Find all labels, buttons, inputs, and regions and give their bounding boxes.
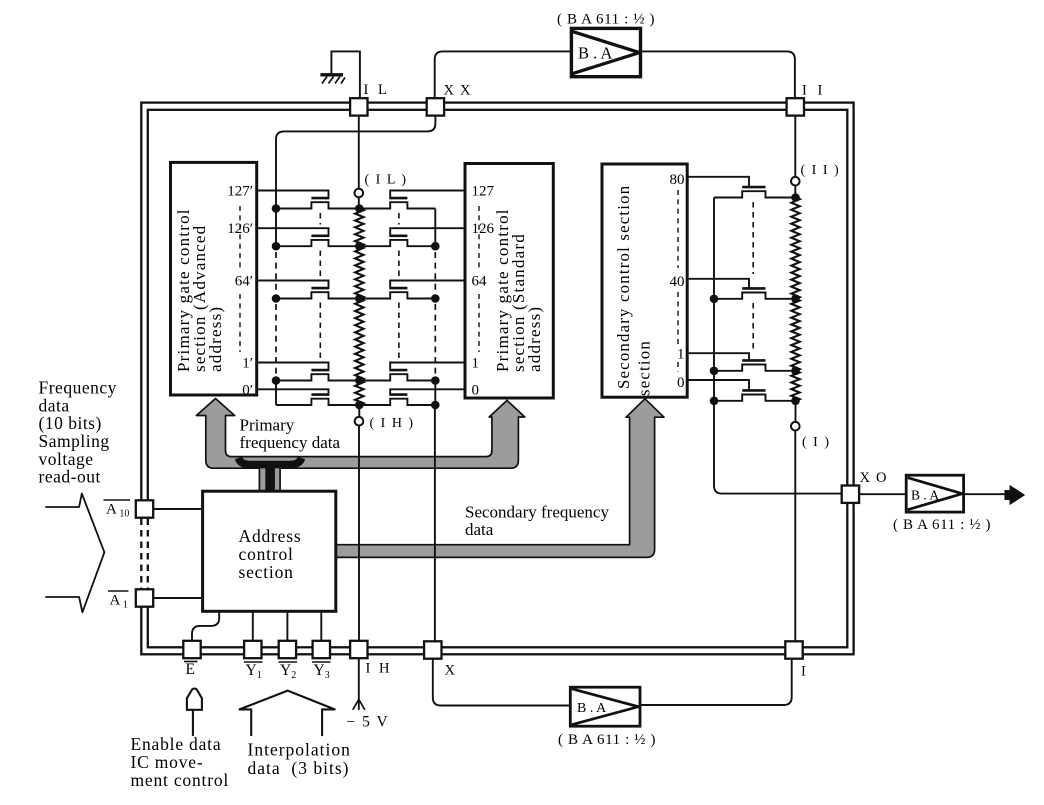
left border dashed segment between A10 and A1 pins [139,518,151,589]
svg-text:( B A 611 : ½ ): ( B A 611 : ½ ) [557,12,655,28]
ground [320,75,345,84]
node (II) [791,177,800,186]
box primary gate control (standard address) [465,164,553,399]
wire A10 pin to address box [153,508,203,510]
transistor Q0pS (standard, row 0p) [390,389,465,396]
input arrow interpolation data [240,691,335,736]
svg-text:( I ): ( I ) [802,435,831,450]
svg-text:frequency data: frequency data [240,433,341,452]
svg-text:126: 126 [472,221,495,237]
transistor Q127pS (standard, row 127p) [390,191,465,200]
wire secondary rail to XO pin [714,401,842,494]
svg-text:40: 40 [670,274,685,290]
transistor Q1pS (standard, row 1p) [390,363,465,372]
transistor Q126pA (advanced, row 126p) [257,228,329,237]
wire XO pin to buffer B.A right [859,493,906,495]
resistor ladder primary [355,209,363,247]
svg-text:IC move-: IC move- [131,752,204,772]
node (I) [791,422,800,431]
wire Y2 pin to address box [286,611,288,641]
svg-text:X O: X O [860,470,888,486]
svg-text:Secondary control section: Secondary control section [614,185,633,389]
pin II [787,98,804,115]
op-amp U2 B.A (right) [906,475,963,512]
svg-text:1′: 1′ [242,356,253,372]
svg-text:127′: 127′ [227,184,253,200]
IC package inner border [148,110,848,648]
dashed continuation standard box [478,206,480,271]
left source rail (XX net) [275,209,277,247]
box address control section [203,491,336,611]
svg-text:80: 80 [670,172,685,188]
svg-text:control: control [239,544,294,564]
op-amp U3 B.A (bottom) [570,687,640,726]
pin IH [350,641,367,658]
svg-text:Primary: Primary [240,416,295,435]
svg-text:0: 0 [472,383,480,399]
box primary gate control (advanced address) [171,162,257,395]
wire IH pin down to -5V chevron [358,658,360,710]
transistor Q1C (secondary, row 1) [687,353,749,361]
svg-text:127: 127 [472,184,495,200]
svg-text:B . A: B . A [911,488,939,503]
svg-text:I: I [801,664,806,680]
svg-text:( B A 611 : ½ ): ( B A 611 : ½ ) [893,517,991,533]
svg-text:X X: X X [444,83,472,99]
transistor Q64pA (advanced, row 64p) [257,281,329,290]
pin X [424,641,441,658]
-5V chevron arrowhead [353,699,365,709]
pin E [183,641,200,658]
box secondary control section [602,164,687,397]
transistor Q40C (secondary, row 40) [687,279,749,290]
svg-text:Address: Address [239,526,302,546]
svg-text:address): address) [525,306,544,372]
transistor Q0C (secondary, row 0) [687,380,749,392]
wire IL pin down to node (IL) [358,116,360,189]
wire X rail down to X pin [434,405,436,642]
svg-text:E: E [186,661,195,678]
junction dots secondary array [791,193,800,202]
wire ladder bottom to node IH and down to IH pin [358,405,360,417]
wire A1 pin to address box [153,597,203,599]
resistor ladder secondary [791,198,799,299]
node (IL) [355,189,364,198]
svg-text:Interpolation: Interpolation [248,740,351,760]
svg-text:( I L ): ( I L ) [365,173,408,188]
transistor Q1pA (advanced, row 1p) [257,363,329,372]
svg-text:− 5 V: − 5 V [347,714,390,731]
transistor Q126pS (standard, row 126p) [390,228,465,237]
pin Y3 [313,641,330,658]
svg-text:64: 64 [472,274,488,290]
wire ladder to node I and down to I pin [795,401,797,422]
junction dots primary array [355,204,364,213]
svg-text:B . A: B . A [578,44,612,63]
svg-text:Secondary frequency: Secondary frequency [465,503,609,522]
svg-text:I I: I I [802,83,826,99]
IC package outer border [141,103,853,655]
wire II pin down to node (II) [794,116,796,177]
svg-text:section: section [635,340,654,396]
svg-text:1: 1 [472,356,480,372]
output arrow (solid) [1005,486,1024,504]
svg-text:Enable data: Enable data [131,734,222,754]
svg-text:0′: 0′ [242,383,253,399]
pin Y2 [279,641,296,658]
svg-text:0: 0 [677,375,685,391]
svg-text:X: X [445,663,456,679]
pin Y1 [244,641,261,658]
wire X pin down to buffer B.A bottom [433,659,571,706]
wire XX pin down to left gate rail [276,116,435,209]
wire B.A top output down to II pin [641,51,795,98]
bus secondary frequency data [336,399,664,558]
svg-text:1: 1 [677,347,685,363]
svg-text:ment control: ment control [131,770,230,790]
svg-text:address): address) [206,306,225,372]
svg-text:( B A 611 : ½ ): ( B A 611 : ½ ) [558,732,656,748]
pin XO [842,486,859,503]
pin A10 [136,500,153,517]
svg-text:B . A: B . A [577,701,607,716]
bus primary frequency data [196,399,524,492]
right source rail (X net) [434,209,436,247]
wire B.A right output to arrow [964,493,1006,495]
svg-text:( I H ): ( I H ) [370,416,415,431]
wire ground to IL pin [331,51,360,98]
gate column dashed continuation (advanced) [319,213,321,225]
dashed continuation advanced box [239,206,241,271]
input arrow enable data (pentagon) [187,689,202,710]
transistor Q64pS (standard, row 64p) [390,281,465,290]
wire Y3 pin to address box [320,611,322,641]
svg-text:section: section [239,562,294,582]
svg-text:I H: I H [366,661,392,677]
gate column dashed continuation (secondary) [752,202,754,274]
op-amp U1 B.A (top) [571,28,640,76]
svg-text:126′: 126′ [227,221,253,237]
svg-text:data: data [465,520,494,539]
wire B.A bottom output up to I pin [640,659,792,706]
dashed continuation secondary box [677,190,679,268]
pin I [785,641,802,658]
wire Y1 pin to address box [252,611,254,641]
pin XX [427,98,444,115]
node (IH) [355,417,364,426]
wire XX pin up to buffer B.A top [435,51,572,98]
svg-text:64′: 64′ [235,274,253,290]
pin A1 [136,589,153,606]
pin IL [350,98,367,115]
bus splitter tee (black) [265,461,275,491]
svg-text:data (3 bits): data (3 bits) [248,758,350,778]
transistor Q127pA (advanced, row 127p) [257,191,329,200]
transistor Q0pA (advanced, row 0p) [257,389,329,396]
transistor Q80C (secondary, row 80) [687,177,749,189]
wire E pin to address box [192,611,219,641]
secondary source rail [713,198,715,401]
svg-text:( I I ): ( I I ) [801,163,841,178]
input arrow frequency data (left) [45,494,104,613]
gate column dashed continuation (standard) [398,213,400,225]
svg-text:I L: I L [364,82,390,98]
svg-text:read-out: read-out [39,467,101,487]
